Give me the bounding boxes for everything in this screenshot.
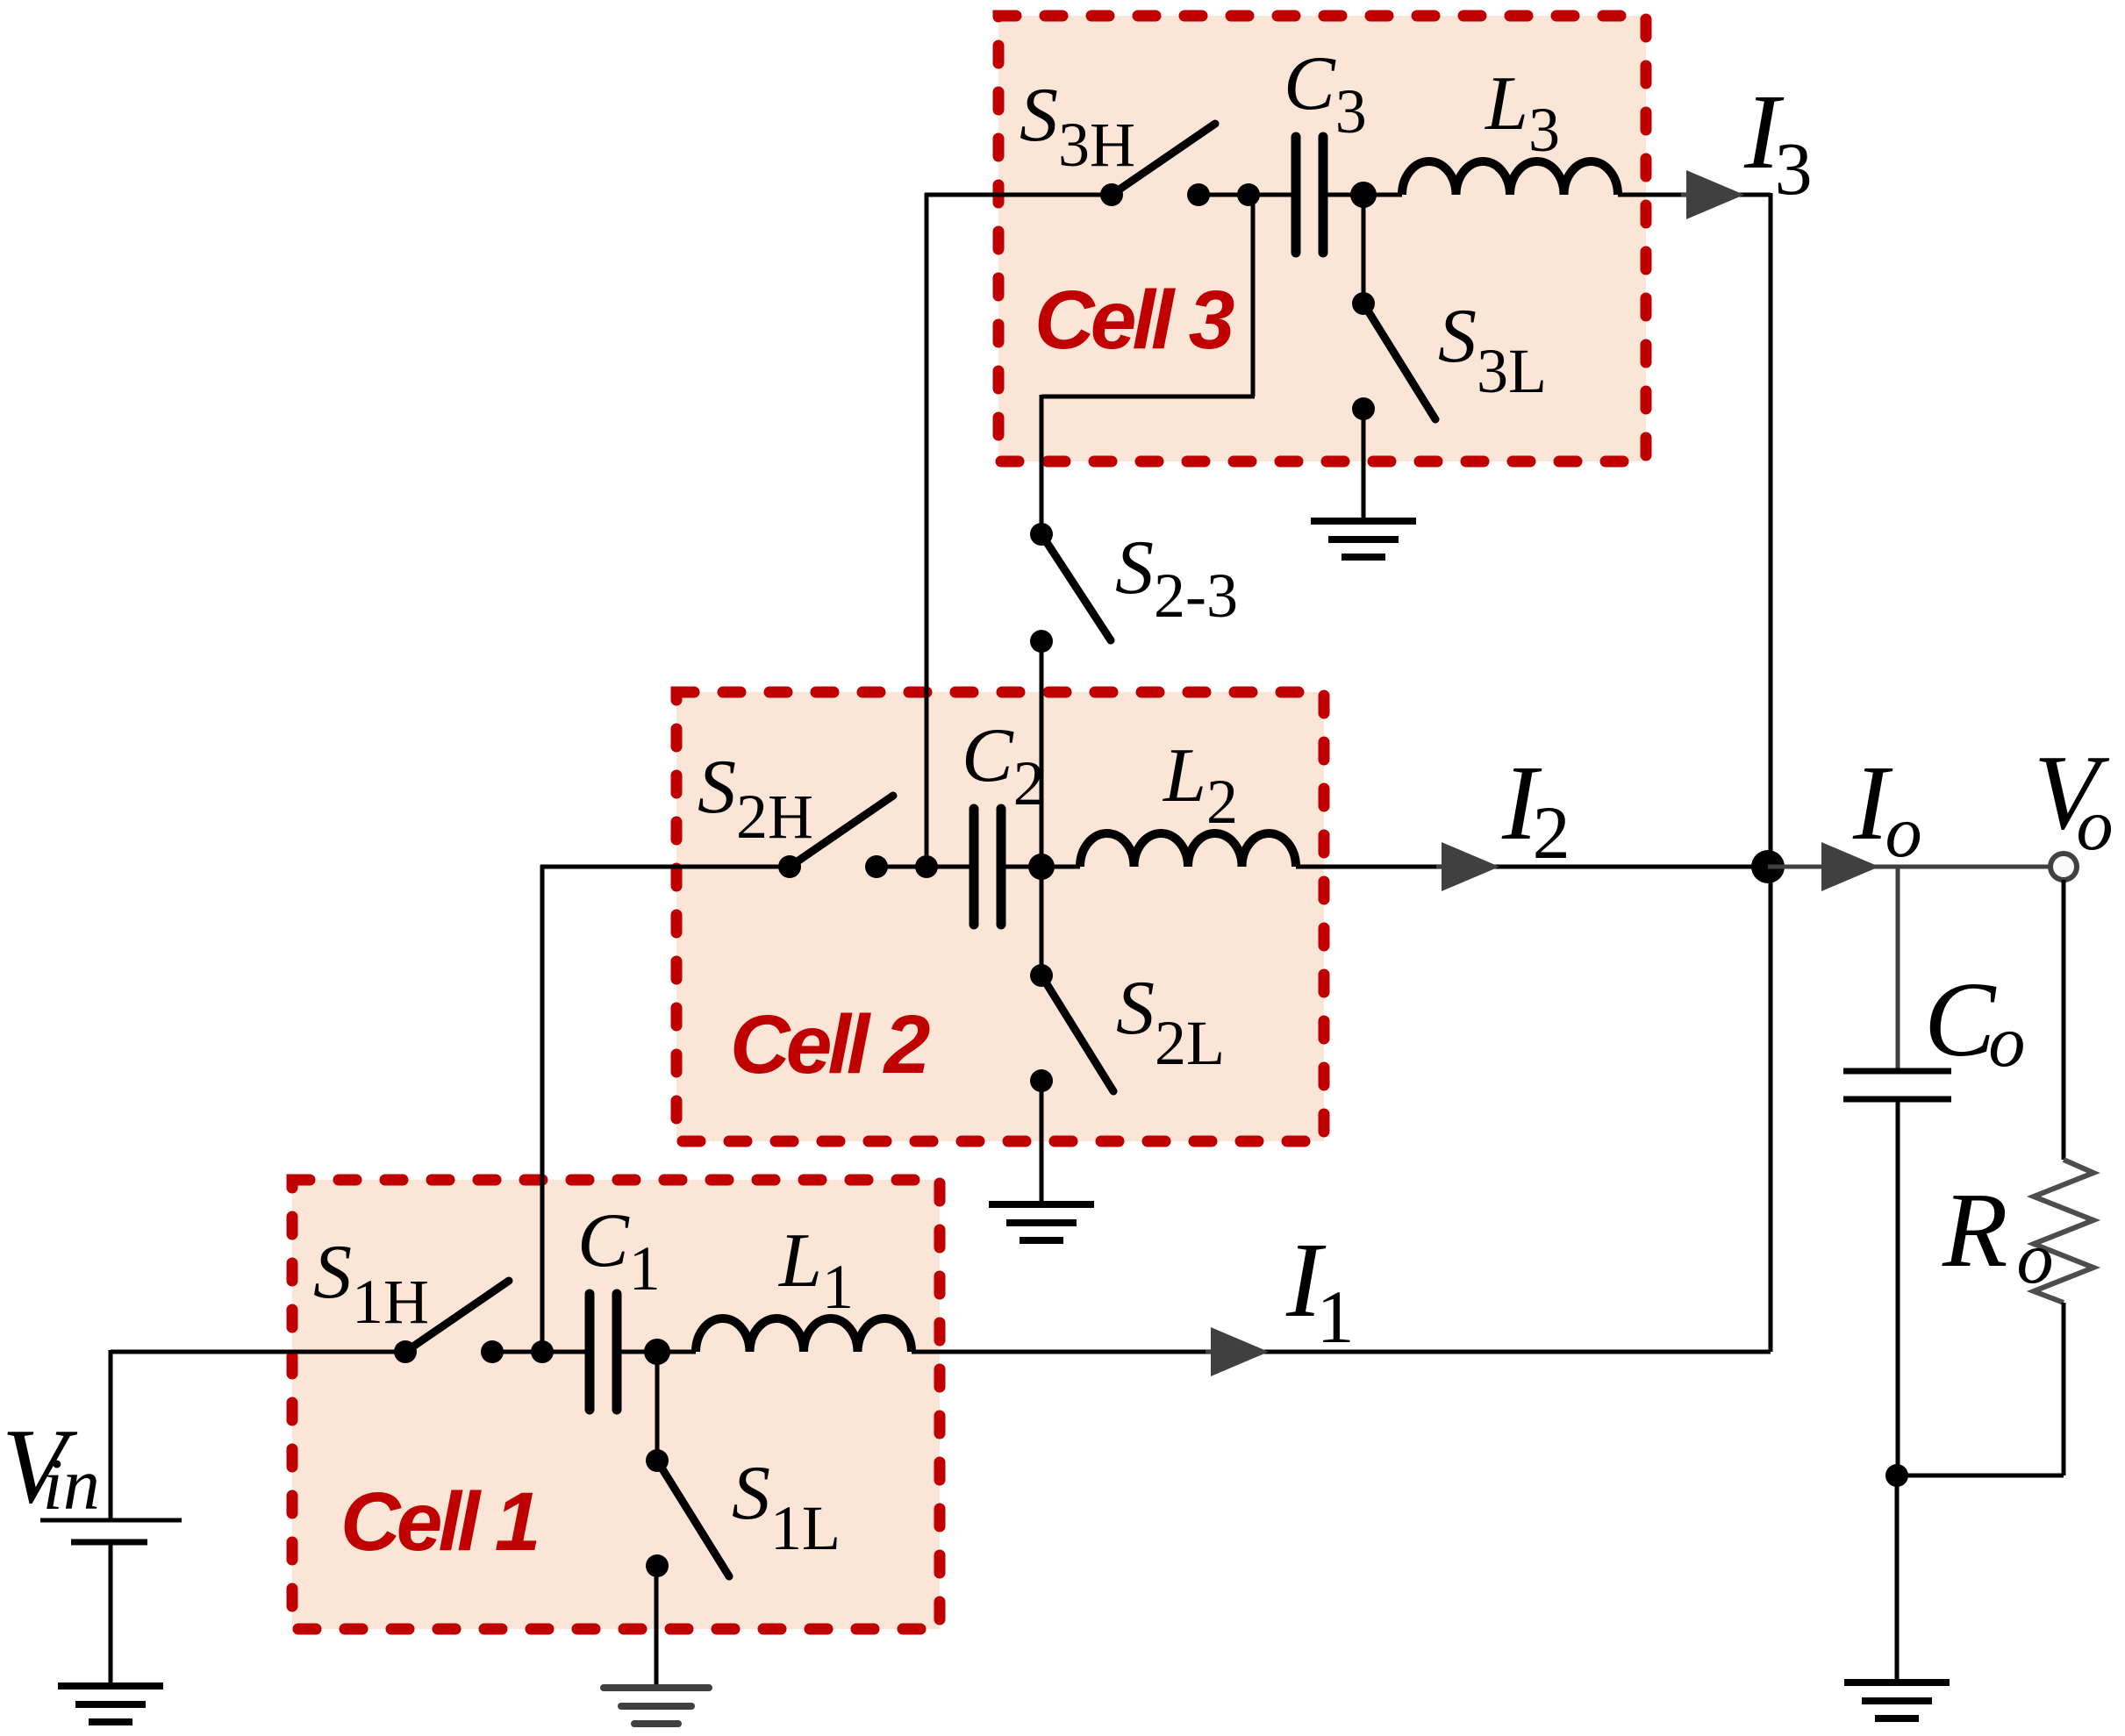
wire junction to output ground: [1895, 1475, 1900, 1682]
wire Ro to Co junction: [1897, 1474, 2064, 1478]
ground cell3: [1311, 521, 1416, 557]
switch S2H contact dot: [778, 855, 801, 878]
wire Vo down to Ro: [2062, 880, 2066, 1160]
node dot S3H throw: [1187, 183, 1210, 206]
switch S3L arm: [1363, 304, 1435, 419]
switch S2L arm: [1041, 975, 1113, 1091]
wire C3 branch elbow: [1041, 395, 1255, 399]
wire C3 to junction: [1326, 193, 1363, 197]
ground cell2: [989, 1204, 1094, 1240]
wire cell3 input horizontal: [925, 193, 1112, 197]
node dot S1H throw: [481, 1340, 504, 1363]
svg-text:Cell 2: Cell 2: [730, 998, 930, 1091]
resistor Ro zigzag: [2034, 1160, 2093, 1303]
wire junction to S1L: [655, 1352, 660, 1461]
capacitor C3 plates: [1296, 137, 1323, 253]
wire junction to L3: [1363, 193, 1402, 197]
wire C2 to junction: [1004, 865, 1041, 869]
wire junction to L1: [657, 1350, 696, 1354]
wire Vin battery to ground: [109, 1542, 113, 1686]
node dot C3 left junction: [1237, 183, 1260, 206]
node dot C1 right junction: [644, 1339, 670, 1365]
node output junction dot: [1751, 850, 1785, 883]
wire C3 branch down: [1251, 195, 1256, 396]
arrow Io: [1816, 865, 1876, 868]
ground cell1: [604, 1688, 709, 1724]
switch S2-3 bottom dot: [1030, 630, 1053, 653]
node dot C1 left junction: [531, 1340, 554, 1363]
switch S2H arm: [790, 796, 893, 867]
wire Vin vertical: [109, 1350, 113, 1520]
wire Ro bottom: [2062, 1303, 2066, 1475]
switch S2-3 arm: [1041, 534, 1111, 640]
switch S1H arm: [405, 1281, 509, 1352]
ground output: [1844, 1682, 1950, 1718]
node dot C2 right junction: [1028, 854, 1055, 880]
switch S2L top dot: [1030, 964, 1053, 987]
wire Vin to S1H input: [111, 1350, 405, 1354]
capacitor Co plates: [1843, 1071, 1951, 1099]
wire S2L to ground: [1040, 1081, 1044, 1204]
inductor L3: [1402, 161, 1618, 195]
switch S3L bottom dot: [1352, 397, 1375, 420]
wire right bus vertical: [1769, 193, 1773, 1352]
switch S3L top dot: [1352, 292, 1375, 315]
arrow I2: [1436, 865, 1496, 868]
cell 1 dashed boundary box: [292, 1180, 940, 1629]
wire L1 to I1 corner: [912, 1350, 1771, 1354]
inductor L1: [696, 1318, 912, 1352]
switch S3H arm: [1112, 124, 1215, 195]
wire Co bottom lead: [1896, 1099, 1900, 1475]
switch S1H contact dot: [394, 1340, 417, 1363]
wire junction to S3L: [1362, 195, 1366, 304]
svg-text:Cell 3: Cell 3: [1034, 274, 1234, 367]
wire cell1 C1-left up to cell2 input: [540, 865, 545, 1352]
wire S2H throw to C2: [876, 865, 971, 869]
node dot C2 left junction: [915, 855, 938, 878]
node dot S2H throw: [865, 855, 888, 878]
wire C1 to junction: [619, 1350, 657, 1354]
wire S3L to ground: [1362, 407, 1366, 521]
cell 3 dashed boundary box: [998, 16, 1646, 461]
wire S3H throw to C3: [1198, 193, 1293, 197]
wire S1H throw to C1: [492, 1350, 587, 1354]
node Vo open circle: [2050, 854, 2077, 880]
ground Vin: [58, 1686, 163, 1722]
node output ground junction dot: [1885, 1464, 1908, 1487]
inductor L2: [1080, 833, 1296, 867]
cell 2 dashed boundary box: [676, 692, 1324, 1141]
capacitor C1 plates: [590, 1294, 617, 1410]
arrow I1: [1206, 1350, 1265, 1354]
wire Co top lead gray: [1896, 867, 1900, 1071]
switch S2-3 top dot: [1030, 523, 1053, 546]
arrow I3: [1681, 193, 1741, 196]
wire cell2 input horizontal: [540, 865, 790, 869]
wire cell2 C2-left up to cell3 input: [925, 193, 929, 867]
wire L2 to output junction: [1296, 865, 1768, 869]
node dot C3 right junction: [1350, 182, 1377, 208]
switch S1L bottom dot: [646, 1554, 669, 1577]
battery Vin negative plate: [71, 1540, 147, 1546]
wire S1L to ground: [655, 1566, 659, 1688]
switch S3H contact dot: [1100, 183, 1123, 206]
wire L3 to I3 corner: [1618, 193, 1771, 197]
switch S2L bottom dot: [1030, 1069, 1053, 1092]
wire junction to S2L: [1040, 867, 1044, 975]
capacitor C2 plates: [974, 809, 1001, 925]
battery Vin positive plate: [40, 1518, 182, 1523]
switch S1L top dot: [646, 1449, 669, 1472]
switch S1L arm: [657, 1461, 729, 1576]
wire Io gray: [1768, 865, 2051, 869]
wire S2-3 to cell2 junction: [1040, 641, 1044, 867]
svg-text:Cell 1: Cell 1: [340, 1475, 537, 1568]
wire junction to L2: [1041, 865, 1080, 869]
wire elbow down to S2-3: [1040, 395, 1044, 534]
